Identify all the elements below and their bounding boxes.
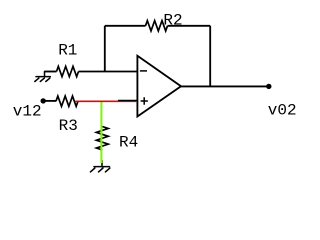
- wire node up to feedback: [104, 26, 106, 72]
- wire ground to R1: [45, 71, 57, 73]
- wire R2 to corner: [168, 25, 211, 27]
- resistor R3: [56, 96, 78, 106]
- svg-text:v12: v12: [13, 102, 42, 120]
- svg-text:v02: v02: [268, 102, 297, 120]
- wire R4 green vertical: [100, 101, 102, 163]
- node v02 terminal dot: [266, 84, 271, 89]
- wire R1 to op-amp minus input: [79, 71, 137, 73]
- svg-text:R3: R3: [59, 117, 78, 135]
- feedback wire down to output: [209, 26, 211, 87]
- wire red R3 to plus input: [76, 100, 137, 102]
- svg-text:R4: R4: [119, 134, 138, 152]
- wire v12 to R3: [43, 100, 56, 102]
- svg-text:R1: R1: [58, 41, 77, 59]
- resistor R1: [57, 66, 79, 76]
- ground (left, signal ground at R1 input): [35, 72, 51, 82]
- svg-text:R2: R2: [163, 12, 182, 30]
- op-amp minus pin mark: [140, 70, 147, 72]
- wire black stub at plus input: [118, 99, 137, 101]
- op-amp U1: [137, 56, 181, 117]
- ground (bottom, under R4): [90, 161, 110, 172]
- wire output: [181, 85, 269, 87]
- wire top left to R2: [105, 25, 146, 27]
- node v12 terminal dot: [41, 98, 46, 103]
- resistor R2: [146, 21, 168, 31]
- resistor R4: [96, 127, 108, 151]
- op-amp plus pin mark: [141, 97, 148, 104]
